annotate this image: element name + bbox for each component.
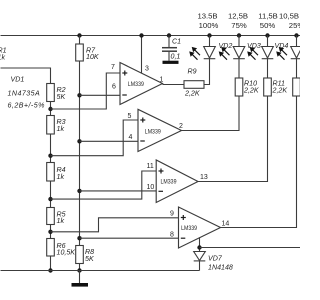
resistor R8 — [76, 246, 84, 264]
wire output14 to R12 — [221, 96, 297, 228]
resistor R3 — [47, 116, 55, 135]
pin 13 output label — [200, 174, 208, 181]
svg-text:10: 10 — [147, 184, 155, 191]
wire R2 to node A — [50, 102, 52, 116]
LED arrows VD5 — [276, 47, 287, 60]
LED VD3 — [237, 33, 241, 37]
svg-text:10,5В: 10,5В — [279, 12, 299, 21]
node R8/rail junction — [77, 268, 81, 272]
resistor R10 — [235, 78, 243, 96]
wire node D to pin9 (with jog) — [51, 218, 179, 232]
wire output1 to R9 — [163, 84, 185, 86]
pin 4 label — [129, 134, 133, 141]
pin 14 output label — [222, 221, 230, 228]
op-amp U1.1 LM339 — [120, 63, 163, 105]
wire R5 to node D — [50, 225, 52, 239]
pin 9 label — [170, 211, 174, 218]
wire node H to pin8 — [80, 237, 179, 239]
node A (R2/R3 junction) — [48, 107, 52, 111]
resistor R5 — [47, 208, 55, 225]
svg-text:5K: 5K — [85, 255, 94, 263]
node C (R4/R5 junction) — [48, 197, 52, 201]
wire R8 to ground rail — [79, 264, 81, 271]
wire output13 to R11 — [198, 96, 268, 182]
wire output2 to R10 — [182, 96, 240, 131]
pin 1 output label — [160, 77, 164, 84]
resistor R7 — [79, 36, 81, 45]
node R7 top junction — [77, 33, 81, 37]
pin 2 output label — [179, 123, 183, 130]
wire node F to pin4 — [80, 140, 139, 142]
LED arrows VD4 — [247, 47, 258, 60]
svg-text:12,5В: 12,5В — [228, 12, 248, 21]
pin 5 label — [128, 113, 132, 120]
svg-text:13: 13 — [200, 174, 208, 181]
svg-text:25%: 25% — [289, 21, 300, 30]
node G (column / pin10) — [77, 189, 81, 193]
node H (column / pin8) — [77, 236, 81, 240]
wire node C to pin11 riser — [51, 171, 157, 199]
LED arrows VD3 — [219, 47, 230, 60]
svg-text:1: 1 — [160, 77, 164, 84]
pin 10 label — [147, 184, 155, 191]
pin 12 ground stub — [199, 237, 201, 251]
wire VD5 to R12 — [296, 59, 298, 78]
svg-text:LM339: LM339 — [128, 81, 144, 88]
LED VD2 — [207, 33, 211, 37]
svg-text:9: 9 — [170, 211, 174, 218]
pin 8 label — [170, 232, 174, 239]
svg-text:5K: 5K — [57, 93, 66, 101]
svg-text:10,5K: 10,5K — [57, 249, 76, 257]
ground symbol (main) — [79, 271, 81, 284]
svg-text:100%: 100% — [199, 21, 219, 30]
svg-text:1k: 1k — [0, 54, 5, 62]
wire VD7 node to right edge — [200, 247, 301, 249]
svg-text:75%: 75% — [231, 21, 247, 30]
wire node A to pin7 riser — [51, 73, 121, 109]
op-amp U1.4 LM339 — [179, 207, 221, 248]
wire node G to pin10 — [80, 190, 157, 192]
node VD7 junction — [197, 245, 201, 249]
resistor R4 — [47, 163, 55, 182]
resistor R11 — [264, 78, 272, 96]
resistor R9 — [184, 81, 204, 89]
op-amp U1.2 LM339 — [138, 109, 182, 151]
pin 6 label — [112, 84, 116, 91]
svg-text:2,2K: 2,2K — [184, 90, 200, 98]
LED VD4 — [265, 33, 269, 37]
resistor R6 — [47, 239, 55, 257]
wire node E to pin6 — [80, 94, 121, 96]
resistor R12 — [293, 78, 301, 96]
wire R6 to ground rail — [50, 256, 52, 271]
node E (column / pin6) — [77, 93, 81, 97]
wire R7 bottom to reference column — [79, 61, 81, 246]
svg-text:C1: C1 — [172, 38, 181, 46]
svg-text:8: 8 — [170, 232, 174, 239]
wire R9 to LED VD2 — [204, 59, 210, 85]
pin 11 label — [147, 163, 154, 170]
pin 7 label — [111, 64, 115, 71]
wire top supply rail — [1, 35, 301, 37]
voltage threshold labels — [197, 12, 304, 31]
pin 3 power riser — [141, 36, 143, 74]
op-amp U1.3 LM339 — [156, 160, 198, 203]
resistor R2 — [47, 84, 55, 102]
svg-text:VD7: VD7 — [208, 255, 223, 263]
svg-text:11,5В: 11,5В — [258, 12, 278, 21]
zener VD1 labels — [8, 76, 45, 110]
svg-text:0,1: 0,1 — [171, 53, 181, 61]
svg-text:LM339: LM339 — [145, 128, 161, 135]
wire input to divider (from R1/VD1 off-left) — [1, 68, 51, 84]
capacitor C1 — [167, 33, 171, 37]
wire bottom ground rail — [1, 270, 200, 272]
svg-text:VD1: VD1 — [11, 76, 25, 84]
svg-text:1k: 1k — [57, 173, 65, 181]
resistor R1 (label only, symbol off-canvas) — [0, 47, 7, 62]
svg-text:2,2K: 2,2K — [243, 87, 259, 95]
svg-text:14: 14 — [222, 221, 230, 228]
node D (R5/R6 junction) — [48, 230, 52, 234]
svg-text:6: 6 — [112, 84, 116, 91]
svg-text:7: 7 — [111, 64, 115, 71]
wire VD4 to R11 — [267, 59, 269, 78]
svg-text:R9: R9 — [188, 68, 197, 76]
node B (R3/R4 junction) — [48, 154, 52, 158]
svg-text:2,2K: 2,2K — [272, 87, 288, 95]
svg-text:1k: 1k — [57, 217, 65, 225]
wire R3 to node B — [50, 134, 52, 163]
svg-text:3: 3 — [145, 66, 149, 73]
wire VD3 to R10 — [238, 59, 240, 78]
node F (column / pin4) — [77, 139, 81, 143]
diode VD7 — [194, 252, 206, 261]
svg-text:50%: 50% — [260, 21, 276, 30]
svg-text:1N4148: 1N4148 — [208, 263, 233, 271]
svg-text:6,2В+/-5%: 6,2В+/-5% — [8, 101, 45, 109]
LED VD5 — [294, 33, 298, 37]
node R6/rail junction — [48, 268, 52, 272]
svg-text:4: 4 — [129, 134, 133, 141]
svg-text:13.5В: 13.5В — [197, 12, 217, 21]
ground symbol (C1) — [163, 61, 179, 64]
svg-text:5: 5 — [128, 113, 132, 120]
wire node B to pin5 riser — [51, 120, 139, 156]
svg-text:1k: 1k — [57, 125, 65, 133]
svg-text:1N4735A: 1N4735A — [8, 90, 41, 98]
svg-text:10K: 10K — [86, 53, 99, 61]
wire R4 to node C — [50, 181, 52, 208]
svg-text:2: 2 — [179, 123, 183, 130]
svg-text:LM339: LM339 — [161, 179, 177, 186]
svg-text:11: 11 — [147, 163, 154, 170]
svg-text:LM339: LM339 — [181, 225, 197, 232]
LED arrows VD2 — [189, 47, 200, 60]
